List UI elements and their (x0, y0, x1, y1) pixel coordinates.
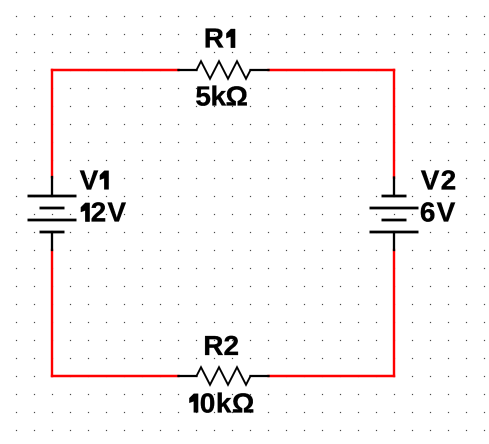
svg-text:6V: 6V (420, 197, 457, 228)
wire right-upper (393, 70, 395, 178)
svg-text:V: V (80, 164, 99, 195)
wire bottom-left (52, 375, 179, 377)
wire bottom-right (269, 375, 395, 377)
value 10kΩ (189, 387, 254, 418)
value 12V (81, 197, 127, 228)
resistor R1 (179, 61, 269, 79)
svg-text:R2: R2 (203, 330, 239, 361)
svg-text:R: R (204, 23, 224, 54)
wire right-lower (393, 250, 395, 376)
label R1 (204, 23, 235, 54)
resistor R2 (179, 367, 269, 385)
battery V2 (370, 178, 419, 251)
svg-text:V2: V2 (421, 164, 458, 195)
svg-text:5kΩ: 5kΩ (195, 81, 247, 112)
wire top-left (52, 69, 179, 71)
wire left-lower (51, 250, 53, 376)
battery V1 (28, 177, 77, 250)
svg-text:0kΩ: 0kΩ (200, 387, 255, 418)
wire top-right (269, 69, 395, 71)
wire left-upper (51, 70, 53, 177)
svg-text:2V: 2V (91, 197, 128, 228)
label V1 (80, 164, 109, 195)
